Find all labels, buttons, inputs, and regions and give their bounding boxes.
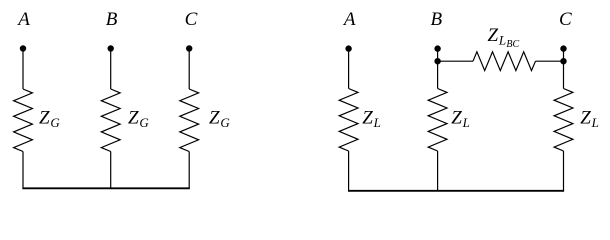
svg-text:ZL: ZL: [580, 108, 599, 131]
resistor Z_L (phase A): [339, 89, 358, 152]
terminal dot A (load): [345, 45, 351, 51]
junction dot C (Z_LBC tap): [560, 58, 566, 64]
svg-text:C: C: [559, 9, 572, 30]
svg-text:B: B: [431, 9, 443, 30]
wire: A terminal to Z_G top: [22, 49, 24, 90]
terminal dot B (load): [434, 45, 440, 51]
wire: Z_L phase C bottom lead: [563, 151, 565, 191]
wire: Z_G phase B bottom lead: [110, 152, 112, 189]
wire: Z_G phase C bottom lead: [188, 152, 190, 189]
resistor Z_G (phase C): [180, 89, 199, 152]
svg-text:A: A: [16, 9, 30, 30]
wire: generator-side common bottom bus: [22, 187, 189, 189]
svg-text:ZG: ZG: [209, 108, 230, 131]
resistor Z_G (phase A): [14, 89, 33, 152]
wire: Z_L phase A bottom lead: [348, 151, 350, 191]
wire: B terminal down through junction to Z_L top: [437, 49, 439, 89]
wire: Z_L phase B bottom lead: [437, 151, 439, 191]
svg-text:ZLBC: ZLBC: [488, 25, 520, 50]
wire: C terminal to Z_G top: [188, 49, 190, 90]
svg-text:ZL: ZL: [451, 108, 470, 131]
svg-text:ZG: ZG: [39, 108, 60, 131]
svg-text:ZL: ZL: [362, 108, 381, 131]
terminal dot A (generator): [20, 45, 26, 51]
wire: C terminal down through junction to Z_L top: [563, 49, 565, 89]
wire: Z_G phase A bottom lead: [22, 152, 24, 189]
wire: A terminal to Z_L top: [348, 49, 350, 89]
resistor Z_LBC (between B and C): [473, 52, 536, 71]
svg-text:C: C: [185, 9, 198, 30]
terminal dot B (generator): [108, 45, 114, 51]
svg-text:B: B: [106, 9, 118, 30]
svg-text:ZG: ZG: [128, 108, 149, 131]
svg-text:A: A: [342, 9, 356, 30]
junction dot B (Z_LBC tap): [434, 58, 440, 64]
terminal dot C (load): [560, 45, 566, 51]
wire: load-side common bottom bus: [348, 190, 564, 192]
wire: B junction to Z_LBC left lead: [438, 60, 473, 62]
resistor Z_L (phase B): [428, 89, 447, 152]
wire: B terminal to Z_G top: [110, 49, 112, 90]
resistor Z_L (phase C): [554, 89, 573, 152]
wire: Z_LBC right lead to C junction: [536, 60, 564, 62]
terminal dot C (generator): [186, 45, 192, 51]
resistor Z_G (phase B): [101, 89, 120, 152]
